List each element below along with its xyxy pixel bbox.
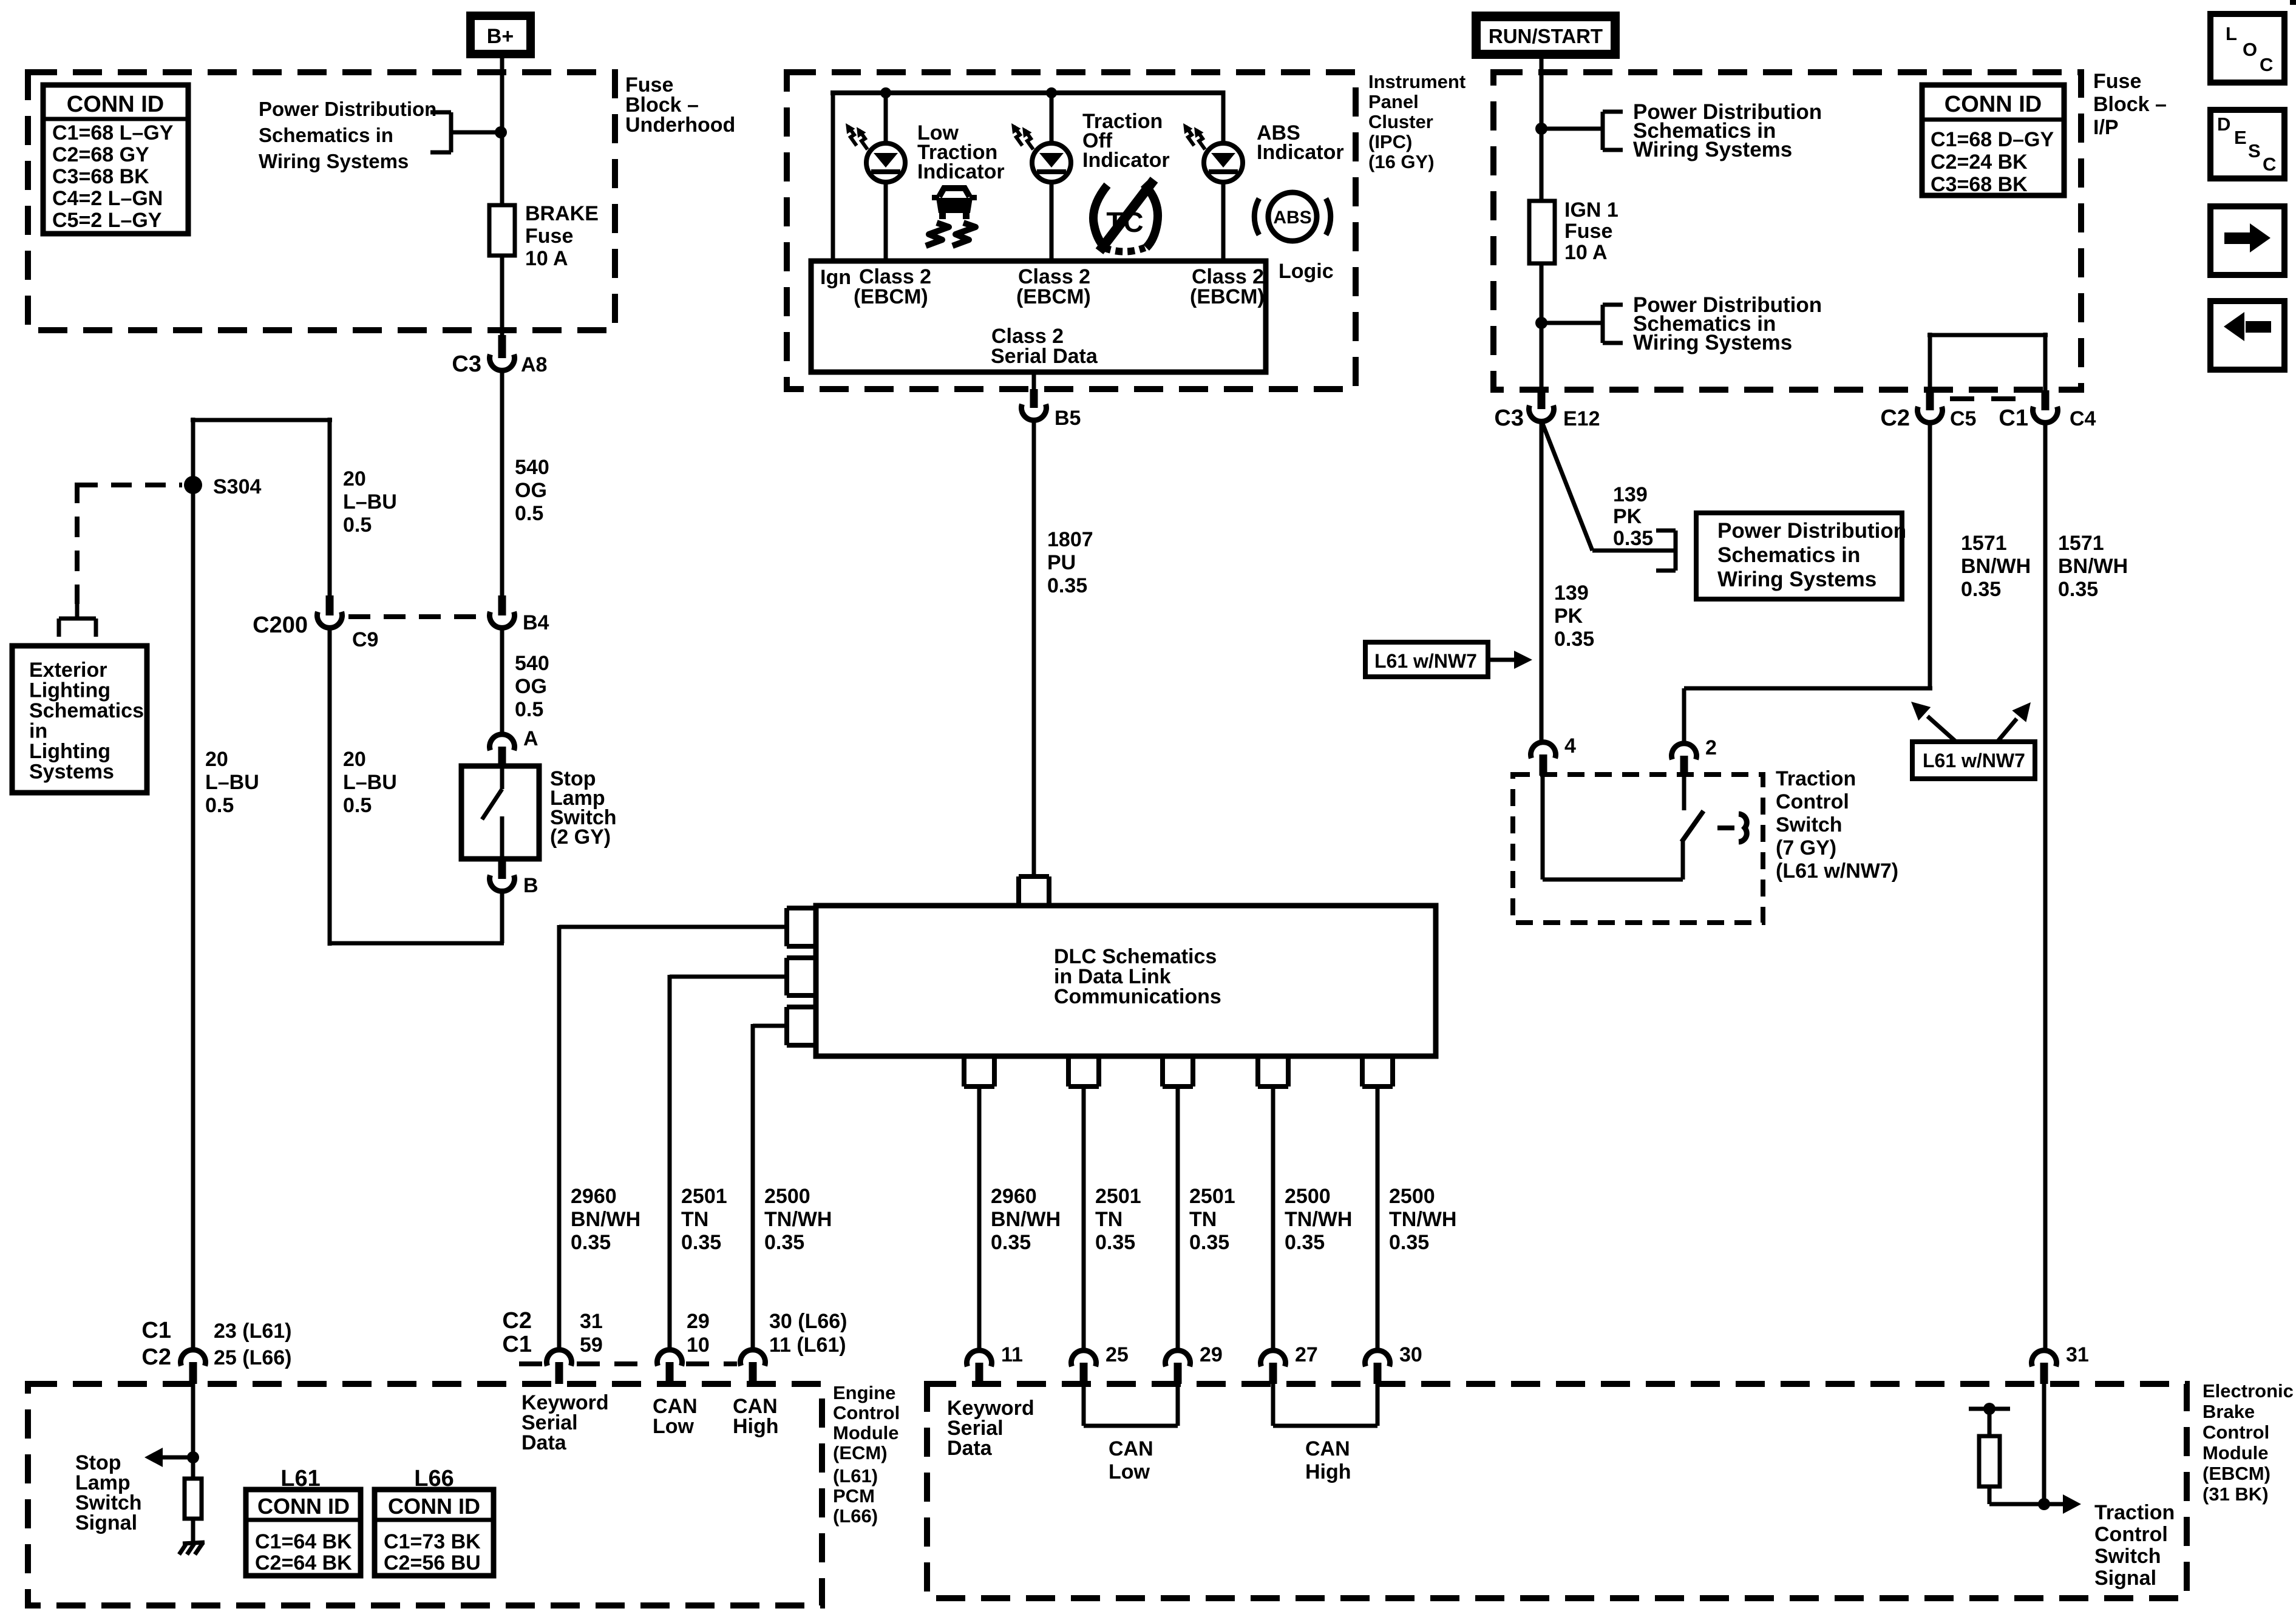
power symbol B+ box	[466, 12, 535, 58]
connector C3/A8 stub	[498, 335, 506, 358]
arrow traction control switch signal	[2044, 1502, 2065, 1507]
svg-text:BN/WH: BN/WH	[1961, 555, 2031, 578]
wire DLC to EBCM pin 4	[1271, 1086, 1275, 1348]
LOC box	[2210, 14, 2284, 83]
wire EBCM traction signal internal	[2042, 1384, 2046, 1504]
connector C200 cup	[318, 612, 342, 628]
svg-text:I/P: I/P	[2093, 116, 2119, 139]
switch pin 4 lead	[1541, 776, 1545, 880]
svg-text:L–BU: L–BU	[205, 771, 259, 794]
svg-text:4: 4	[1564, 734, 1576, 758]
wire DLC to EBCM pin 1	[977, 1086, 982, 1348]
svg-text:0.5: 0.5	[343, 514, 372, 537]
svg-text:Power Distribution: Power Distribution	[1717, 519, 1906, 543]
arrow L61 flag to C5 wire	[1927, 716, 1956, 742]
svg-text:Control: Control	[2203, 1422, 2269, 1443]
svg-text:0.35: 0.35	[1095, 1231, 1135, 1254]
node resistor tap	[1983, 1403, 1995, 1415]
Instrument Panel Cluster dashed box	[787, 72, 1356, 389]
connector A dome	[490, 734, 515, 751]
svg-text:(2 GY): (2 GY)	[550, 825, 611, 849]
svg-text:0.35: 0.35	[764, 1231, 804, 1254]
icon traction off TC	[1093, 185, 1107, 246]
svg-text:C4=2 L–GN: C4=2 L–GN	[52, 187, 163, 210]
svg-text:0.35: 0.35	[1189, 1231, 1229, 1254]
DLC bottom pigtail bracket 4	[1255, 1056, 1260, 1086]
svg-text:0.35: 0.35	[2058, 578, 2098, 601]
svg-text:OG: OG	[515, 675, 547, 698]
connector B5 stub	[1030, 389, 1038, 408]
wire C9 down to stop lamp return	[328, 629, 332, 946]
next-page arrow box	[2210, 206, 2284, 275]
connector dome pin 4	[1531, 742, 1556, 759]
svg-text:High: High	[733, 1415, 779, 1438]
svg-text:C3: C3	[452, 351, 481, 377]
ground ECM	[179, 1542, 205, 1554]
svg-text:11: 11	[1001, 1343, 1023, 1366]
svg-text:BN/WH: BN/WH	[2058, 555, 2128, 578]
DLC left bracket 3	[787, 1005, 816, 1009]
DLC top pigtail bracket	[1019, 874, 1049, 879]
svg-text:(EBCM): (EBCM)	[2203, 1463, 2271, 1484]
svg-text:20: 20	[205, 748, 228, 771]
svg-text:Indicator: Indicator	[1257, 141, 1344, 164]
svg-text:Lighting: Lighting	[29, 740, 110, 763]
wire rail to resistor	[1988, 1409, 1992, 1436]
connector C1/C4 cup	[2033, 407, 2058, 423]
dashed connector line ECM pins	[519, 1361, 542, 1366]
svg-text:Communications: Communications	[1054, 985, 1221, 1008]
svg-text:RUN/START: RUN/START	[1489, 25, 1603, 47]
svg-text:139: 139	[1554, 581, 1589, 605]
svg-text:C3=68 BK: C3=68 BK	[1931, 173, 2028, 196]
svg-text:0.5: 0.5	[515, 698, 543, 721]
svg-text:31: 31	[2066, 1343, 2089, 1366]
svg-text:Low: Low	[653, 1415, 695, 1438]
svg-text:29: 29	[1200, 1343, 1223, 1366]
svg-text:0.35: 0.35	[571, 1231, 611, 1254]
wire 1571 BN/WH from C5	[1928, 424, 1932, 688]
dashed wire S304 to exterior lighting	[77, 483, 182, 487]
off-page bracket power distribution upper	[1603, 110, 1623, 114]
wire lamp2 drop lower	[1050, 182, 1054, 261]
svg-text:B+: B+	[487, 25, 514, 48]
prev-page arrow box	[2210, 301, 2284, 370]
lamp Low Traction Indicator	[866, 143, 905, 182]
svg-text:(31 BK): (31 BK)	[2203, 1483, 2269, 1505]
switch pin 2 lead	[1682, 777, 1686, 810]
wire lamp1 drop upper	[884, 93, 888, 143]
svg-text:0.35: 0.35	[991, 1231, 1031, 1254]
svg-text:540: 540	[515, 456, 549, 479]
CONN ID table L66	[375, 1490, 494, 1576]
svg-text:0.35: 0.35	[1047, 574, 1087, 597]
svg-text:(EBCM): (EBCM)	[1190, 285, 1265, 308]
node lower tap	[1535, 317, 1547, 329]
splice S304	[184, 476, 202, 494]
connector C3/E12 cup	[1529, 405, 1554, 422]
svg-text:139: 139	[1613, 483, 1648, 506]
wire DLC to EBCM pin 3	[1176, 1086, 1180, 1348]
svg-text:Brake: Brake	[2203, 1401, 2255, 1422]
svg-text:High: High	[1305, 1460, 1351, 1483]
svg-text:Lighting: Lighting	[29, 679, 110, 702]
dashed connector tick C5-C4	[1950, 396, 2024, 401]
svg-text:C: C	[2260, 54, 2273, 75]
svg-text:TN/WH: TN/WH	[1389, 1208, 1456, 1231]
svg-text:30: 30	[1399, 1343, 1422, 1366]
fuse IGN 1 10A	[1527, 199, 1557, 265]
connector dome EBCM pin 25	[1072, 1351, 1096, 1367]
connector B5 cup	[1022, 404, 1047, 421]
svg-text:Wiring Systems: Wiring Systems	[259, 150, 409, 172]
icon vehicle skid	[939, 188, 970, 197]
svg-text:Schematics in: Schematics in	[259, 124, 393, 146]
svg-text:Module: Module	[2203, 1442, 2269, 1463]
svg-text:C2: C2	[502, 1308, 532, 1334]
svg-text:S: S	[2248, 140, 2261, 161]
svg-text:C2=56 BU: C2=56 BU	[384, 1551, 481, 1575]
icon skid marks	[926, 223, 949, 246]
IPC internal box Class 2 Serial Data	[811, 261, 1266, 372]
svg-text:0.35: 0.35	[1285, 1231, 1325, 1254]
svg-text:C1=73 BK: C1=73 BK	[384, 1530, 481, 1553]
svg-text:0.5: 0.5	[205, 794, 234, 817]
wire 20 L-BU left vertical	[191, 418, 195, 1348]
wire CAN low to ECM horizontal	[670, 975, 787, 979]
svg-text:0.35: 0.35	[1961, 578, 2001, 601]
connector A stub	[498, 747, 506, 767]
node lamp1 tap	[880, 87, 891, 98]
stop lamp switch contact lower	[500, 816, 504, 859]
wire pin 2 drop	[1682, 688, 1686, 741]
svg-text:PU: PU	[1047, 551, 1076, 574]
DLC bottom pigtail bracket 5	[1360, 1056, 1365, 1086]
svg-text:1571: 1571	[1961, 532, 2007, 555]
svg-text:Data: Data	[521, 1431, 567, 1454]
svg-text:1807: 1807	[1047, 528, 1093, 551]
svg-text:Schematics: Schematics	[29, 699, 144, 722]
DESC box	[2210, 110, 2284, 178]
svg-text:C1: C1	[141, 1318, 171, 1343]
svg-text:L–BU: L–BU	[343, 490, 397, 514]
svg-text:TN: TN	[1189, 1208, 1217, 1231]
svg-text:25: 25	[1106, 1343, 1129, 1366]
switch bottom link	[1543, 878, 1683, 882]
svg-text:20: 20	[343, 467, 366, 490]
connector dome ECM pin 29/10	[657, 1350, 682, 1366]
DLC left bracket 2	[787, 955, 816, 960]
power symbol RUN/START box	[1472, 12, 1620, 59]
svg-text:Switch: Switch	[1776, 813, 1843, 836]
svg-text:Wiring Systems: Wiring Systems	[1633, 138, 1792, 161]
wire 139 PK diagonal to power distribution	[1543, 424, 1592, 551]
svg-text:27: 27	[1295, 1343, 1318, 1366]
wire lamp3 drop lower	[1221, 182, 1226, 261]
node EBCM signal junction	[2038, 1498, 2050, 1510]
svg-text:TN/WH: TN/WH	[1285, 1208, 1352, 1231]
connector C2/C5 stub	[1926, 390, 1934, 410]
svg-text:Power Distribution: Power Distribution	[259, 98, 436, 120]
connector dome ECM pin 31/59	[547, 1350, 572, 1366]
wire RUN/START feed	[1540, 59, 1544, 203]
connector dome ECM pin 30/11	[741, 1350, 766, 1366]
svg-text:CONN ID: CONN ID	[67, 92, 164, 117]
wire B4 to stop lamp switch A	[500, 629, 504, 733]
Fuse Block - I/P dashed box	[1493, 72, 2081, 390]
svg-text:0.35: 0.35	[1389, 1231, 1429, 1254]
svg-text:23 (L61): 23 (L61)	[214, 1320, 292, 1343]
svg-text:2501: 2501	[1095, 1185, 1141, 1208]
stop lamp switch box	[461, 766, 539, 859]
wire CAN high bridge EBCM	[1271, 1384, 1275, 1426]
svg-text:2: 2	[1705, 736, 1717, 759]
fuse BRAKE 10A	[487, 203, 517, 257]
svg-text:O: O	[2243, 39, 2257, 60]
svg-text:2500: 2500	[1285, 1185, 1331, 1208]
svg-text:10: 10	[687, 1334, 710, 1357]
wire CAN high to ECM vertical	[751, 1024, 755, 1348]
wire 1571 BN/WH from C4 to EBCM 31	[2043, 424, 2048, 1348]
svg-text:540: 540	[515, 652, 549, 675]
svg-text:E12: E12	[1563, 407, 1600, 430]
wire keyword serial data to ECM horizontal	[559, 925, 787, 929]
wire resistor to junction	[1988, 1486, 1992, 1504]
svg-text:0.35: 0.35	[1613, 527, 1653, 550]
wire keyword serial data to ECM vertical	[557, 925, 562, 1348]
Engine Control Module dashed box	[28, 1384, 822, 1605]
connector B cup	[490, 875, 515, 892]
svg-text:Instrument: Instrument	[1368, 71, 1466, 92]
svg-text:L61 w/NW7: L61 w/NW7	[1374, 650, 1477, 672]
svg-text:2501: 2501	[1189, 1185, 1235, 1208]
off-page bracket to power distribution (underhood)	[430, 110, 451, 115]
power distribution schematics box (solid)	[1696, 513, 1902, 599]
wire jumper C5 to C4 bracket	[1928, 333, 1932, 390]
connector B4 stub	[498, 595, 506, 615]
svg-text:C5=2 L–GY: C5=2 L–GY	[52, 209, 162, 232]
svg-text:CONN ID: CONN ID	[1944, 92, 2042, 117]
svg-text:(EBCM): (EBCM)	[854, 285, 928, 308]
wire bracket to B+ node	[451, 131, 501, 135]
flag box L61 w/NW7 (left)	[1365, 642, 1488, 677]
svg-text:59: 59	[580, 1334, 603, 1357]
arrow stop lamp switch signal	[159, 1456, 193, 1460]
resistor ECM pulldown	[185, 1479, 202, 1519]
svg-text:L: L	[2226, 23, 2237, 44]
svg-text:PCM: PCM	[833, 1485, 875, 1507]
svg-text:C4: C4	[2070, 407, 2096, 430]
svg-text:TN: TN	[681, 1208, 708, 1231]
svg-text:C3: C3	[1494, 405, 1524, 431]
switch blade	[1682, 811, 1703, 842]
svg-text:(16 GY): (16 GY)	[1368, 151, 1435, 172]
connector C1/C2 stub	[189, 1362, 197, 1384]
wire CAN low to ECM vertical	[668, 975, 672, 1348]
svg-text:Serial Data: Serial Data	[991, 345, 1098, 368]
svg-text:0.5: 0.5	[343, 794, 372, 817]
svg-text:(L66): (L66)	[833, 1505, 878, 1527]
svg-text:C1=64 BK: C1=64 BK	[255, 1530, 352, 1553]
svg-text:Traction: Traction	[2094, 1501, 2175, 1524]
svg-text:Data: Data	[947, 1437, 993, 1460]
svg-text:Electronic: Electronic	[2203, 1380, 2294, 1402]
svg-text:Switch: Switch	[2094, 1545, 2161, 1568]
node splice on B+ feed	[495, 126, 507, 138]
svg-text:Control: Control	[2094, 1523, 2168, 1546]
svg-text:Module: Module	[833, 1422, 899, 1443]
off-page bracket power distribution lower	[1603, 303, 1623, 307]
off-page bracket power distribution (139 PK)	[1656, 529, 1676, 533]
svg-text:Control: Control	[833, 1402, 900, 1423]
wire top jumper horizontal	[191, 418, 332, 422]
svg-text:C2=24 BK: C2=24 BK	[1931, 151, 2028, 174]
off-page fork to exterior lighting	[75, 604, 80, 619]
CONN ID table (I/P)	[1922, 85, 2064, 195]
svg-text:Logic: Logic	[1279, 260, 1334, 283]
svg-text:CAN: CAN	[1305, 1437, 1350, 1460]
wire IPC top bus	[830, 90, 1223, 95]
svg-text:Systems: Systems	[29, 761, 114, 784]
wire C5 branch horizontal to pin 2	[1684, 686, 1932, 691]
wire CAN low bridge EBCM	[1082, 1384, 1086, 1426]
CONN ID table L61	[246, 1490, 361, 1576]
svg-text:C1=68 L–GY: C1=68 L–GY	[52, 121, 174, 144]
node stop lamp signal junction	[187, 1451, 199, 1463]
DLC bottom pigtail bracket 2	[1066, 1056, 1071, 1086]
svg-text:Traction: Traction	[1776, 767, 1856, 790]
svg-text:Wiring Systems: Wiring Systems	[1633, 331, 1792, 354]
wire B to C9 branch horizontal	[330, 941, 504, 946]
svg-text:Schematics in: Schematics in	[1717, 543, 1860, 567]
page corner mark	[2290, 0, 2296, 5]
switch actuator dash	[1717, 825, 1734, 830]
node upper tap	[1535, 123, 1547, 135]
svg-text:TN: TN	[1095, 1208, 1123, 1231]
svg-text:C3=68 BK: C3=68 BK	[52, 165, 149, 188]
svg-text:(L61): (L61)	[833, 1465, 878, 1486]
connector C3/E12 stub	[1538, 390, 1546, 409]
svg-text:1571: 1571	[2058, 532, 2104, 555]
wire stop lamp switch signal internal	[191, 1384, 195, 1479]
svg-text:Block –: Block –	[2093, 93, 2167, 116]
connector dome EBCM pin 11	[967, 1351, 992, 1367]
svg-text:C1: C1	[502, 1332, 532, 1357]
svg-text:Indicator: Indicator	[1082, 149, 1170, 172]
svg-text:A8: A8	[521, 353, 547, 376]
DLC bottom pigtail bracket 3	[1160, 1056, 1165, 1086]
svg-text:Ign: Ign	[820, 266, 851, 289]
svg-text:C9: C9	[352, 628, 378, 651]
svg-text:B5: B5	[1055, 407, 1081, 430]
resistor EBCM pullup	[1979, 1436, 2000, 1486]
flag box L61 w/NW7 (right)	[1912, 742, 2035, 779]
svg-text:D: D	[2217, 114, 2230, 135]
connector C1/C4 stub	[2042, 390, 2050, 410]
svg-text:0.35: 0.35	[681, 1231, 721, 1254]
svg-text:2501: 2501	[681, 1185, 727, 1208]
Fuse Block - Underhood dashed box	[28, 72, 615, 330]
svg-text:2960: 2960	[571, 1185, 617, 1208]
svg-text:Indicator: Indicator	[917, 160, 1005, 183]
svg-text:PK: PK	[1613, 505, 1642, 528]
svg-text:C1: C1	[1999, 405, 2028, 431]
exterior lighting schematics box	[12, 646, 147, 793]
connector dome EBCM pin 27	[1261, 1351, 1286, 1367]
svg-text:(7 GY): (7 GY)	[1776, 836, 1836, 859]
connector dome EBCM pin 29	[1166, 1351, 1190, 1367]
svg-text:Wiring Systems: Wiring Systems	[1717, 568, 1877, 591]
svg-text:TN/WH: TN/WH	[764, 1208, 832, 1231]
svg-text:31: 31	[580, 1310, 603, 1333]
wire B5 lead	[1032, 372, 1036, 389]
svg-text:C2: C2	[1880, 405, 1910, 431]
svg-text:in: in	[29, 720, 47, 743]
DLC Schematics box	[816, 906, 1436, 1056]
svg-text:0.35: 0.35	[1554, 628, 1594, 651]
connector dome EBCM pin 31	[2032, 1351, 2057, 1367]
svg-text:CONN ID: CONN ID	[257, 1494, 350, 1519]
svg-text:BN/WH: BN/WH	[991, 1208, 1061, 1231]
DLC left bracket 1	[787, 906, 816, 910]
icon ABS logic	[1268, 192, 1317, 241]
arrow L61 w/NW7 to 139 PK wire	[1488, 658, 1515, 662]
wire Ign drop	[831, 90, 835, 261]
svg-text:29: 29	[687, 1310, 710, 1333]
switch pivot lead	[1681, 841, 1685, 880]
svg-text:Control: Control	[1776, 790, 1849, 813]
svg-text:PK: PK	[1554, 605, 1583, 628]
wire B down	[500, 893, 504, 943]
svg-text:Fuse: Fuse	[2093, 70, 2141, 93]
wire DLC to EBCM pin 5	[1376, 1086, 1380, 1348]
connector C3/A8 cup	[490, 354, 515, 371]
svg-text:OG: OG	[515, 479, 547, 502]
wire 20 L-BU middle vertical upper	[328, 418, 332, 595]
svg-text:(EBCM): (EBCM)	[1016, 285, 1091, 308]
svg-text:C5: C5	[1950, 407, 1976, 430]
svg-text:L61 w/NW7: L61 w/NW7	[1923, 750, 2025, 771]
wire 139 PK vertical	[1540, 424, 1544, 740]
svg-text:IGN 1: IGN 1	[1564, 198, 1618, 222]
Electronic Brake Control Module dashed box	[927, 1384, 2187, 1598]
wire B+ vertical feed	[500, 58, 504, 335]
connector dome pin 2	[1672, 744, 1697, 760]
svg-text:E: E	[2234, 127, 2247, 148]
connector pin 4 stub	[1540, 754, 1547, 776]
wire IGN1 to E12	[1540, 263, 1544, 390]
node lamp2 tap	[1046, 87, 1057, 98]
wire lamp3 drop upper	[1221, 90, 1226, 143]
svg-text:25 (L66): 25 (L66)	[214, 1346, 292, 1369]
switch detent symbol	[1739, 814, 1747, 842]
DLC bottom pigtail bracket 1	[962, 1056, 966, 1086]
svg-text:Panel: Panel	[1368, 91, 1419, 112]
svg-text:A: A	[523, 727, 538, 750]
wire lamp1 drop lower	[884, 182, 888, 261]
svg-text:(ECM): (ECM)	[833, 1442, 888, 1463]
svg-text:C: C	[2263, 154, 2276, 175]
svg-text:CAN: CAN	[1109, 1437, 1153, 1460]
svg-text:S304: S304	[213, 475, 261, 498]
svg-text:C200: C200	[253, 612, 308, 638]
arrow L61 flag to C4 wire	[1997, 719, 2017, 742]
svg-text:(L61 w/NW7): (L61 w/NW7)	[1776, 859, 1898, 883]
stop lamp switch contact upper	[500, 766, 504, 789]
svg-text:Exterior: Exterior	[29, 659, 107, 682]
wire lamp2 drop upper	[1050, 93, 1054, 143]
svg-text:CONN ID: CONN ID	[388, 1494, 480, 1519]
